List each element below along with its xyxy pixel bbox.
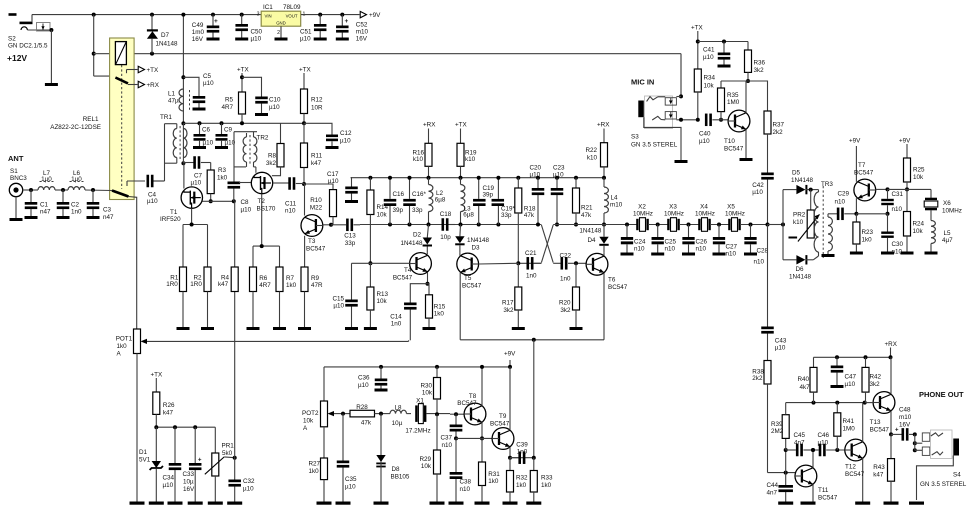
svg-text:BC547: BC547 xyxy=(608,284,628,291)
svg-text:C41: C41 xyxy=(703,47,715,54)
label R34 xyxy=(704,75,716,90)
svg-text:2k2: 2k2 xyxy=(752,375,763,382)
svg-text:R27: R27 xyxy=(309,461,321,468)
transistor T5 BC547 xyxy=(457,253,479,340)
svg-text:+TX: +TX xyxy=(237,67,250,74)
svg-text:4n7: 4n7 xyxy=(767,490,778,497)
label C4 xyxy=(147,192,158,206)
label C11 xyxy=(285,201,297,215)
svg-text:C38: C38 xyxy=(460,479,472,486)
svg-text:TR3: TR3 xyxy=(821,181,833,188)
resistor R30 10k xyxy=(434,365,441,416)
label S4 xyxy=(953,471,961,478)
label R29 xyxy=(419,456,431,470)
label X2 xyxy=(633,204,653,218)
svg-text:1n0: 1n0 xyxy=(560,276,571,283)
svg-text:4µ7: 4µ7 xyxy=(942,237,953,244)
svg-text:µ10: µ10 xyxy=(241,207,252,214)
svg-text:2M2: 2M2 xyxy=(771,428,784,435)
svg-text:16V: 16V xyxy=(192,36,204,43)
svg-text:S3: S3 xyxy=(631,134,639,141)
zener D1 5V1 xyxy=(149,427,164,505)
label C43 xyxy=(775,338,787,352)
label C13 xyxy=(344,233,356,248)
svg-text:10R: 10R xyxy=(311,104,323,111)
svg-text:+: + xyxy=(198,458,202,464)
label R6 xyxy=(259,275,271,289)
wire x5 out xyxy=(740,224,767,226)
wire RX stub xyxy=(889,348,893,360)
wire coil line xyxy=(94,53,116,55)
svg-text:6µ8: 6µ8 xyxy=(463,212,474,219)
label R7 xyxy=(286,275,297,289)
resistor R8 3k2 xyxy=(272,123,284,175)
potentiometer POT2 10k xyxy=(321,367,335,458)
relay dashed link xyxy=(121,65,123,189)
svg-text:C45: C45 xyxy=(794,432,806,439)
wire T2 source node xyxy=(253,244,280,267)
svg-text:1k0: 1k0 xyxy=(286,282,297,289)
svg-text:C23: C23 xyxy=(553,165,565,172)
connector S3 jack xyxy=(638,96,676,129)
relay contact lower xyxy=(112,181,129,197)
diode D6 1N4148 xyxy=(783,255,813,264)
varactor D8 BB105 xyxy=(374,414,389,505)
label C28 xyxy=(754,248,769,266)
svg-text:R12: R12 xyxy=(311,97,323,104)
capacitor C48 m10 16V xyxy=(891,428,915,441)
label L1 xyxy=(168,91,179,105)
label R36 xyxy=(754,60,766,74)
svg-text:C36: C36 xyxy=(358,375,370,382)
svg-text:VOUT: VOUT xyxy=(286,14,298,19)
svg-text:47k: 47k xyxy=(581,212,592,219)
label BNC3 xyxy=(10,175,27,182)
svg-text:1µ0: 1µ0 xyxy=(71,176,82,183)
svg-text:+9V: +9V xyxy=(899,138,911,145)
label C37 xyxy=(440,435,452,450)
resistor R1 1R0 xyxy=(177,267,190,330)
svg-text:1n0: 1n0 xyxy=(526,273,537,280)
wire T4 base line xyxy=(352,262,376,264)
capacitor C16 39p xyxy=(384,176,397,227)
svg-text:C42: C42 xyxy=(752,182,764,189)
transistor T10 BC547 xyxy=(728,81,750,158)
label R37 xyxy=(773,122,785,136)
svg-text:n10: n10 xyxy=(665,246,676,253)
svg-text:16V: 16V xyxy=(183,486,195,493)
svg-text:5k0: 5k0 xyxy=(222,450,233,457)
label R30 xyxy=(420,383,432,397)
svg-text:m10: m10 xyxy=(899,414,912,421)
wire S2 switched pin to ground xyxy=(49,28,53,83)
label C16* xyxy=(412,191,427,214)
label C49 xyxy=(192,22,205,43)
label GN DC2.1/5.5 xyxy=(8,43,48,50)
svg-text:3k2: 3k2 xyxy=(503,307,514,314)
inductor L7 1µ0 xyxy=(38,182,55,191)
label C52 xyxy=(356,22,369,43)
label C31 xyxy=(892,191,904,213)
label T3 xyxy=(306,238,326,253)
label C47 xyxy=(845,374,857,389)
wire relay RX out xyxy=(129,197,137,330)
transistor T11 BC547 xyxy=(795,448,817,505)
svg-text:1k0: 1k0 xyxy=(488,478,499,485)
label +9V bus xyxy=(504,351,516,358)
resistor R22 k10 xyxy=(597,122,610,180)
label T1 xyxy=(170,209,178,216)
svg-text:2k2: 2k2 xyxy=(773,129,784,136)
svg-text:X5: X5 xyxy=(727,204,735,211)
svg-text:47R: 47R xyxy=(311,282,323,289)
svg-text:m10: m10 xyxy=(356,29,369,36)
svg-text:k47: k47 xyxy=(311,160,322,167)
svg-text:1k0: 1k0 xyxy=(434,310,445,317)
label R32 xyxy=(516,475,528,490)
capacitor C21 1n0 xyxy=(527,257,542,270)
transformer TR1 xyxy=(165,121,187,181)
label D7 xyxy=(161,32,170,39)
label R25 xyxy=(913,167,925,182)
wire ant xyxy=(23,188,38,192)
wire balance tap xyxy=(533,340,535,458)
svg-text:+: + xyxy=(214,18,218,25)
label S2 xyxy=(8,36,16,43)
resistor R33 1k0 xyxy=(526,458,541,505)
label D8 xyxy=(391,466,410,481)
wire TXRX to jack xyxy=(676,54,683,99)
svg-text:10MHz: 10MHz xyxy=(942,208,962,215)
svg-text:C37: C37 xyxy=(440,435,452,442)
svg-text:m10: m10 xyxy=(610,201,623,208)
svg-text:2: 2 xyxy=(277,30,280,36)
wire R3 node to C8 xyxy=(211,199,236,203)
svg-text:REL1: REL1 xyxy=(83,116,99,123)
label D6 xyxy=(789,266,812,281)
svg-text:+9V: +9V xyxy=(849,138,861,145)
svg-text:17.2MHz: 17.2MHz xyxy=(405,427,430,434)
svg-text:1k0: 1k0 xyxy=(309,468,320,475)
svg-text:1N4148: 1N4148 xyxy=(467,237,490,244)
svg-text:POT2: POT2 xyxy=(302,410,319,417)
svg-text:C9: C9 xyxy=(224,127,233,134)
wire x4-x5 xyxy=(710,224,729,226)
wire wiper2 xyxy=(334,412,350,416)
svg-text:4R7: 4R7 xyxy=(259,282,271,289)
svg-text:µ10: µ10 xyxy=(358,382,369,389)
label C33 xyxy=(183,471,196,493)
svg-text:C8: C8 xyxy=(241,199,250,206)
label C45 xyxy=(794,432,806,447)
svg-text:D5: D5 xyxy=(792,170,801,177)
svg-text:R22: R22 xyxy=(585,147,597,154)
arrow +TX xyxy=(138,66,159,74)
capacitor C49 1m0 16V xyxy=(207,13,220,41)
crystal X1 17.2MHz xyxy=(415,404,450,424)
wire relay to C4 xyxy=(127,180,145,182)
svg-text:10k: 10k xyxy=(704,82,715,89)
label R4 xyxy=(218,275,230,288)
label T7 xyxy=(854,162,874,177)
svg-text:+RX: +RX xyxy=(885,341,898,348)
label TR2 xyxy=(257,135,269,142)
svg-text:1M0: 1M0 xyxy=(727,99,740,106)
label L4 xyxy=(610,195,623,209)
capacitor C32 µ10 xyxy=(227,458,242,505)
svg-text:1N4148: 1N4148 xyxy=(789,274,812,281)
diode D4 1N4148 xyxy=(599,225,608,253)
wire T9 emitter line xyxy=(510,456,536,460)
crystal X4 10MHz xyxy=(698,218,711,232)
svg-text:R15: R15 xyxy=(434,303,446,310)
svg-text:R17: R17 xyxy=(502,300,514,307)
svg-text:BC547: BC547 xyxy=(818,495,838,502)
label C42 xyxy=(752,182,764,196)
svg-text:µ10: µ10 xyxy=(818,440,829,447)
svg-text:C1: C1 xyxy=(40,201,49,208)
svg-text:µ10: µ10 xyxy=(203,140,214,147)
svg-text:GN 3.5 STEREL: GN 3.5 STEREL xyxy=(631,142,678,149)
svg-text:n10: n10 xyxy=(285,208,296,215)
capacitor C37 n10 xyxy=(450,414,463,440)
svg-text:1R0: 1R0 xyxy=(166,281,178,288)
svg-text:n10: n10 xyxy=(835,199,846,206)
label L5 xyxy=(942,230,953,244)
label +TX bias xyxy=(151,372,164,379)
capacitor C13 33p xyxy=(331,219,360,232)
svg-text:47k: 47k xyxy=(524,212,535,219)
svg-text:k10: k10 xyxy=(587,155,598,162)
svg-text:78L09: 78L09 xyxy=(283,4,301,11)
svg-text:n10: n10 xyxy=(726,251,737,258)
wire RX bus xyxy=(814,355,891,359)
label R16 xyxy=(412,150,424,164)
node T3 base xyxy=(329,223,333,227)
svg-text:+TX: +TX xyxy=(691,25,704,32)
wire L7-L6 xyxy=(55,188,68,192)
ground S3 xyxy=(675,160,688,163)
wire X1 node xyxy=(450,412,464,416)
wire +TX stub xyxy=(127,69,138,71)
label C29 xyxy=(835,191,850,206)
svg-text:BC547: BC547 xyxy=(462,283,482,290)
label R9 xyxy=(311,275,323,289)
label +TX mic xyxy=(691,25,704,32)
ground IC1 GND pin xyxy=(275,26,288,40)
label IC1 xyxy=(263,4,273,11)
label R15 xyxy=(434,303,446,317)
label C22 xyxy=(560,253,572,283)
svg-text:5V1: 5V1 xyxy=(139,457,151,464)
label S1 xyxy=(10,168,18,175)
inductor L8 10µ xyxy=(390,410,411,413)
svg-text:D3: D3 xyxy=(472,245,481,252)
svg-text:D7: D7 xyxy=(161,32,170,39)
label C35 xyxy=(345,476,357,491)
svg-text:k47: k47 xyxy=(218,281,229,288)
wire T9 base line xyxy=(456,437,492,439)
resistor R43 k47 xyxy=(884,434,899,504)
capacitor C43 µ10 xyxy=(761,225,774,361)
svg-text:T11: T11 xyxy=(818,487,829,494)
svg-text:33p: 33p xyxy=(345,240,356,247)
wire T5 base link xyxy=(479,262,518,265)
resistor R24 10k xyxy=(901,189,914,254)
resistor R38 2k2 xyxy=(764,361,771,473)
svg-text:C3: C3 xyxy=(103,207,112,214)
svg-text:C7: C7 xyxy=(194,172,203,179)
svg-text:X4: X4 xyxy=(700,204,708,211)
connector S4 jack xyxy=(913,430,959,500)
label C19* xyxy=(501,206,516,219)
crystal X2 10MHz xyxy=(636,218,649,232)
svg-text:IRF520: IRF520 xyxy=(160,216,181,223)
svg-text:X2: X2 xyxy=(638,204,646,211)
label R33 xyxy=(541,475,553,490)
svg-text:R28: R28 xyxy=(356,404,368,411)
regulator IC1 78L09 xyxy=(257,11,306,36)
label C34 xyxy=(163,475,175,490)
capacitor C6 µ10 xyxy=(193,121,206,149)
svg-text:33p: 33p xyxy=(501,212,512,219)
trimmer PR2 k10 xyxy=(789,188,820,242)
label T11 xyxy=(818,487,838,502)
label R18 xyxy=(524,206,536,220)
label GN 3.5 STEREL xyxy=(920,481,967,488)
svg-text:T1: T1 xyxy=(170,209,178,216)
capacitor C26 n10 xyxy=(682,223,695,256)
label C41 xyxy=(703,47,715,62)
label R43 xyxy=(873,464,885,479)
capacitor C33 10µ 16V xyxy=(188,427,203,505)
capacitor C20 µ10 xyxy=(532,176,545,227)
label R24 xyxy=(913,221,925,236)
svg-text:R31: R31 xyxy=(488,471,500,478)
svg-text:T5: T5 xyxy=(464,275,472,282)
wire to X6 xyxy=(888,189,932,198)
diode D2 1N4148 xyxy=(423,225,432,253)
svg-text:µ10: µ10 xyxy=(243,486,254,493)
svg-text:BC547: BC547 xyxy=(306,246,326,253)
svg-text:S2: S2 xyxy=(8,36,16,43)
svg-text:µ10: µ10 xyxy=(328,178,339,185)
capacitor C31 n10 xyxy=(881,187,894,215)
wire +RX stub xyxy=(128,84,138,86)
svg-text:µ10: µ10 xyxy=(191,180,202,187)
svg-text:k47: k47 xyxy=(163,410,174,417)
capacitor C17 µ10 xyxy=(345,178,358,203)
svg-text:BC547: BC547 xyxy=(457,400,477,407)
label AZ822-2C-12DSE xyxy=(50,124,101,131)
svg-text:C52: C52 xyxy=(356,22,368,29)
resistor R6 4R7 xyxy=(247,267,260,330)
svg-text:1n0: 1n0 xyxy=(71,208,82,215)
svg-text:n10: n10 xyxy=(754,259,765,266)
svg-text:R32: R32 xyxy=(516,475,528,482)
svg-text:C17: C17 xyxy=(327,171,339,178)
svg-text:µ10: µ10 xyxy=(333,302,344,309)
label C46 xyxy=(818,432,830,447)
svg-text:T10: T10 xyxy=(724,138,735,145)
resistor R42 3k2 xyxy=(862,357,869,402)
svg-text:1k0: 1k0 xyxy=(541,482,552,489)
svg-text:BC547: BC547 xyxy=(854,170,874,177)
label R39 xyxy=(771,421,784,435)
svg-text:C24: C24 xyxy=(634,239,646,246)
wire bias bus xyxy=(351,177,604,179)
label C10 xyxy=(269,97,281,112)
svg-text:BS170: BS170 xyxy=(257,206,276,213)
svg-text:C47: C47 xyxy=(845,374,857,381)
svg-text:k10: k10 xyxy=(465,156,476,163)
resistor R15 1k0 xyxy=(423,284,436,330)
label R38 xyxy=(752,369,764,382)
svg-text:R41: R41 xyxy=(843,418,855,425)
svg-text:C34: C34 xyxy=(163,475,175,482)
wire fb line xyxy=(786,449,796,451)
svg-text:µ10: µ10 xyxy=(530,172,541,179)
resistor R34 10k xyxy=(694,69,701,122)
label 1N4148 xyxy=(156,41,179,48)
svg-text:S4: S4 xyxy=(953,471,961,478)
capacitor C9 µ10 xyxy=(215,121,228,149)
label C20 xyxy=(530,165,542,179)
svg-text:C49: C49 xyxy=(192,22,204,29)
resistor R25 10k xyxy=(899,138,911,192)
svg-text:C20: C20 xyxy=(530,165,542,172)
svg-text:M22: M22 xyxy=(310,205,323,212)
label IRF520 xyxy=(160,216,181,223)
svg-text:1N4148: 1N4148 xyxy=(400,240,423,247)
svg-text:µ10: µ10 xyxy=(553,172,564,179)
label C16 xyxy=(393,191,405,214)
wire bias node xyxy=(154,425,215,429)
svg-text:47k: 47k xyxy=(361,420,372,427)
svg-text:X1: X1 xyxy=(416,398,424,405)
resistor R4 k47 xyxy=(231,201,238,291)
svg-text:X6: X6 xyxy=(943,200,951,207)
svg-text:3: 3 xyxy=(257,12,260,18)
label R13 xyxy=(377,291,389,305)
wire lower xline xyxy=(516,261,541,265)
svg-text:16V: 16V xyxy=(899,422,911,429)
transistor T4 BC547 xyxy=(375,253,431,286)
resistor R10 M22 xyxy=(304,184,337,225)
svg-text:10µ: 10µ xyxy=(183,479,194,486)
label D4 xyxy=(579,228,602,245)
svg-text:C29: C29 xyxy=(838,191,850,198)
label C15 xyxy=(332,296,344,310)
label C12 xyxy=(340,130,352,145)
diode D5 1N4148 xyxy=(783,185,815,194)
resistor R9 47R xyxy=(298,267,311,330)
svg-text:C14: C14 xyxy=(390,314,402,321)
wire T1 source node xyxy=(183,223,208,268)
capacitor C5 µ10 xyxy=(183,77,205,110)
label X1 xyxy=(405,398,430,435)
svg-text:D1: D1 xyxy=(139,449,148,456)
svg-text:µ10: µ10 xyxy=(845,381,856,388)
svg-text:10MHz: 10MHz xyxy=(695,211,715,218)
resistor R40 4k7 xyxy=(810,357,817,402)
svg-text:X3: X3 xyxy=(669,204,677,211)
svg-text:C11: C11 xyxy=(285,201,297,208)
inductor L2 6µ8 xyxy=(427,178,433,227)
svg-text:GN 3.5 STEREL: GN 3.5 STEREL xyxy=(920,481,967,488)
crystal X5 10MHz xyxy=(728,218,741,232)
capacitor C14 1n0 xyxy=(404,284,427,341)
